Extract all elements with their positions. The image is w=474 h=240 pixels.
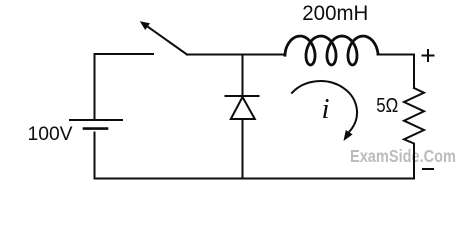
svg-text:200mH: 200mH xyxy=(302,2,368,25)
svg-text:i: i xyxy=(322,93,330,125)
svg-text:100V: 100V xyxy=(28,124,73,145)
svg-text:5Ω: 5Ω xyxy=(376,95,398,117)
svg-text:ExamSide.Com: ExamSide.Com xyxy=(350,146,456,166)
